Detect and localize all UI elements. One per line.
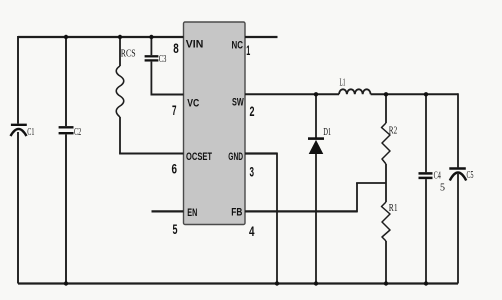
svg-text:VC: VC xyxy=(187,98,199,110)
node bottom-GND xyxy=(275,281,279,285)
svg-text:RCS: RCS xyxy=(121,49,136,60)
node SW-C4 xyxy=(424,92,428,96)
svg-text:5: 5 xyxy=(173,221,178,237)
svg-text:L1: L1 xyxy=(340,78,346,89)
svg-text:3: 3 xyxy=(249,164,254,180)
wire top rail VIN xyxy=(18,36,184,38)
node bottom-D1 xyxy=(314,281,318,285)
svg-text:SW: SW xyxy=(232,97,244,109)
svg-text:2: 2 xyxy=(250,103,255,119)
svg-text:C1: C1 xyxy=(27,127,34,138)
wire GND pin3 xyxy=(245,152,277,154)
svg-text:R1: R1 xyxy=(389,203,398,214)
node bottom-C4 xyxy=(424,281,428,285)
resistor R1 xyxy=(382,183,398,284)
svg-text:C3: C3 xyxy=(159,54,167,65)
svg-text:NC: NC xyxy=(232,40,244,52)
capacitor C1 xyxy=(11,125,35,138)
svg-text:4: 4 xyxy=(249,223,255,239)
svg-text:FB: FB xyxy=(231,207,242,219)
diode D1 xyxy=(308,94,331,283)
node SW-D1 xyxy=(314,92,318,96)
svg-text:EN: EN xyxy=(187,207,197,219)
wire NC pin1 stub xyxy=(245,36,278,38)
svg-text:VIN: VIN xyxy=(186,39,204,51)
node bottom-R1 xyxy=(384,281,388,285)
node top-RCS xyxy=(118,35,122,39)
svg-text:5: 5 xyxy=(440,183,445,194)
svg-text:R2: R2 xyxy=(389,126,397,137)
svg-text:C2: C2 xyxy=(74,127,81,138)
wire OCSET pin6 xyxy=(119,153,183,155)
svg-text:OCSET: OCSET xyxy=(186,151,212,163)
capacitor C2 xyxy=(59,37,82,284)
wire left vertical xyxy=(17,36,19,284)
capacitor C4 xyxy=(419,94,446,283)
svg-text:6: 6 xyxy=(172,161,178,177)
wire VC pin7 xyxy=(151,94,184,96)
inductor L1 xyxy=(339,78,371,95)
wire bottom rail xyxy=(18,282,458,284)
capacitor C5 xyxy=(449,93,473,283)
node bottom-C2 xyxy=(64,281,68,285)
node top-C2 xyxy=(64,35,68,39)
svg-text:D1: D1 xyxy=(323,127,331,138)
svg-text:GND: GND xyxy=(228,151,243,163)
node top-C3 xyxy=(149,35,153,39)
resistor RCS xyxy=(116,37,135,154)
wire SW rail after L1 xyxy=(371,93,458,95)
svg-text:8: 8 xyxy=(173,40,179,56)
svg-text:C5: C5 xyxy=(467,170,474,181)
wire FB pin4 xyxy=(245,210,357,212)
capacitor C3 xyxy=(145,37,167,95)
wire GND vertical xyxy=(276,153,278,284)
wire FB vertical riser xyxy=(356,183,358,212)
wire FB tap horizontal xyxy=(356,182,386,184)
resistor R2 xyxy=(382,94,398,183)
svg-text:1: 1 xyxy=(246,42,250,58)
svg-text:C4: C4 xyxy=(434,170,441,181)
wire EN pin5 stub xyxy=(152,210,184,212)
IC U1 body xyxy=(184,22,246,225)
svg-text:7: 7 xyxy=(172,102,177,118)
wire SW rail pin2 xyxy=(245,93,339,95)
node SW-R2 xyxy=(384,92,388,96)
